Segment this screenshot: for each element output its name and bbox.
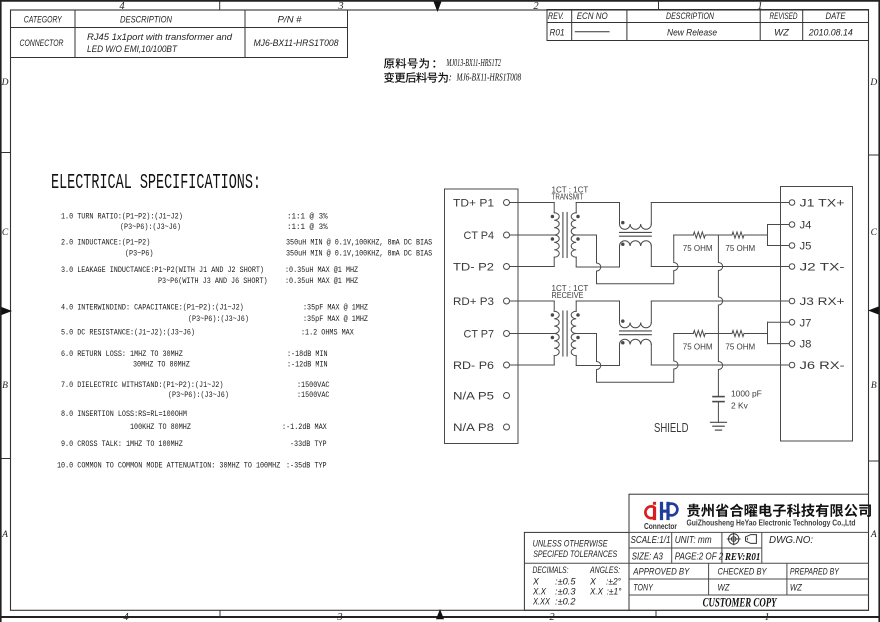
svg-text:SHIELD: SHIELD: [654, 420, 689, 435]
wire T2 secondary bottom to choke: [576, 365, 619, 367]
centering arrow left: [2, 307, 13, 315]
svg-text:B: B: [2, 381, 8, 391]
svg-text:TONY: TONY: [633, 583, 653, 594]
svg-text:X.XX: X.XX: [532, 597, 551, 607]
svg-text::-1.2dB MAX: :-1.2dB MAX: [282, 422, 327, 432]
centering arrow right: [868, 307, 879, 315]
transformer T1 phase dot primary lower: [551, 238, 554, 241]
svg-text:REVISED: REVISED: [770, 11, 798, 22]
svg-text:8.0 INSERTION LOSS:RS=RL=100OH: 8.0 INSERTION LOSS:RS=RL=100OHM: [61, 409, 187, 419]
svg-text:J2 TX-: J2 TX-: [800, 262, 845, 274]
svg-text:(P3~P6):(J3~J6): (P3~P6):(J3~J6): [168, 390, 229, 400]
resistor R2 75 OHM: [725, 232, 755, 253]
svg-text:MJ6-BX11-HRS1T008: MJ6-BX11-HRS1T008: [254, 38, 340, 49]
transformer T1 primary winding: [554, 203, 559, 267]
svg-text:DECIMALS:: DECIMALS:: [533, 565, 569, 575]
svg-text:DESCRIPTION: DESCRIPTION: [666, 11, 714, 22]
svg-text:N/A P5: N/A P5: [453, 391, 494, 403]
revision table: [547, 10, 869, 41]
svg-text:SCALE:1/1: SCALE:1/1: [631, 535, 671, 546]
svg-text:30MHZ TO 80MHZ: 30MHZ TO 80MHZ: [133, 359, 190, 369]
svg-text:RECEIVE: RECEIVE: [552, 291, 584, 300]
svg-text:CHECKED BY: CHECKED BY: [718, 567, 768, 578]
svg-text:C: C: [871, 228, 878, 238]
svg-text:GuiZhousheng HeYao Electronic: GuiZhousheng HeYao Electronic Technology…: [687, 518, 856, 528]
ground (shield): [711, 422, 727, 430]
svg-text:5.0 DC RESISTANCE:(J1~J2):(J3~: 5.0 DC RESISTANCE:(J1~J2):(J3~J6): [61, 327, 195, 337]
wire choke to J6: [651, 364, 789, 366]
svg-text:N/A P8: N/A P8: [453, 422, 494, 434]
wire choke to J3: [651, 300, 789, 302]
svg-text::0.35uH MAX @1 MHZ: :0.35uH MAX @1 MHZ: [285, 265, 358, 275]
label T2 RECEIVE 1CT : 1CT: [552, 284, 589, 300]
terminal P1 TD+: [453, 198, 510, 210]
transformer T2 primary winding: [554, 301, 559, 365]
wire capacitor to ground: [717, 402, 719, 423]
svg-text:2: 2: [549, 612, 555, 622]
terminal P7 CT: [464, 329, 510, 341]
wire bracket to J7/J8: [768, 322, 790, 343]
svg-text::-12dB MIN: :-12dB MIN: [287, 359, 328, 369]
svg-text:TD- P2: TD- P2: [453, 262, 494, 274]
svg-text::1:1 @ 3%: :1:1 @ 3%: [287, 222, 328, 232]
svg-text:J6 RX-: J6 RX-: [800, 360, 845, 372]
transformer T2 secondary winding: [571, 301, 576, 365]
svg-text:1000 pF: 1000 pF: [731, 388, 762, 398]
transformer T1 secondary winding: [571, 203, 576, 267]
specification list: [57, 212, 432, 471]
svg-text:UNIT: mm: UNIT: mm: [675, 535, 712, 546]
svg-text:Connector: Connector: [644, 522, 678, 531]
svg-text:1.0 TURN RATIO:(P1~P2):(J1~J2): 1.0 TURN RATIO:(P1~P2):(J1~J2): [61, 212, 183, 222]
svg-text:10.0 COMMON TO COMMON MODE ATT: 10.0 COMMON TO COMMON MODE ATTENUATION: …: [57, 461, 280, 471]
svg-text:4: 4: [119, 1, 125, 12]
terminal J8: [789, 339, 811, 351]
svg-text::-35dB TYP: :-35dB TYP: [286, 461, 327, 471]
third-angle projection symbol: [727, 533, 757, 545]
svg-text:2: 2: [533, 1, 539, 12]
terminal P8 N/A: [453, 422, 510, 434]
connector J-side box: [781, 187, 853, 442]
svg-text:75 OHM: 75 OHM: [683, 343, 713, 352]
company name (Chinese): [687, 504, 871, 517]
common-mode choke L2 top winding: [620, 301, 652, 328]
svg-text:X: X: [589, 577, 597, 587]
wire T1 secondary bottom to choke: [576, 266, 619, 268]
svg-text:C: C: [2, 228, 9, 238]
svg-text:A: A: [870, 530, 877, 540]
svg-text:P3~P6(WITH J3 AND J6 SHORT): P3~P6(WITH J3 AND J6 SHORT): [158, 276, 268, 286]
svg-text:APPROVED BY: APPROVED BY: [632, 567, 689, 578]
wire choke to J1: [651, 202, 789, 204]
common-mode choke L2 bottom winding: [620, 339, 652, 365]
svg-text:RJ45 1x1port with transformer: RJ45 1x1port with transformer and: [87, 32, 233, 42]
svg-text:TD+ P1: TD+ P1: [453, 198, 494, 210]
svg-text:WZ: WZ: [718, 583, 731, 594]
svg-text::1:1 @ 3%: :1:1 @ 3%: [287, 212, 328, 222]
terminal P3 RD+: [453, 296, 510, 308]
centering arrow top: [434, 2, 442, 13]
terminal P6 RD-: [453, 360, 510, 372]
resistor R4 75 OHM: [725, 331, 755, 352]
svg-text:75 OHM: 75 OHM: [725, 244, 755, 253]
terminal P5 N/A: [453, 391, 510, 403]
resistor R3 75 OHM: [683, 331, 713, 352]
zone ticks left: [1, 153, 11, 459]
svg-text::±1°: :±1°: [607, 587, 622, 597]
svg-text:(P3~P6): (P3~P6): [125, 249, 153, 259]
svg-text:PAGE:2 OF 2: PAGE:2 OF 2: [675, 552, 724, 563]
svg-text:3.0 LEAKAGE INDUCTANCE:P1~P2(W: 3.0 LEAKAGE INDUCTANCE:P1~P2(WITH J1 AND…: [61, 265, 264, 275]
svg-text:350uH MIN @ 0.1V,100KHZ, 8mA D: 350uH MIN @ 0.1V,100KHZ, 8mA DC BIAS: [286, 249, 432, 259]
svg-text:(P3~P6):(J3~J6): (P3~P6):(J3~J6): [120, 222, 181, 232]
svg-text:REV.: REV.: [548, 11, 564, 22]
svg-text:2.0 INDUCTANCE:(P1~P2): 2.0 INDUCTANCE:(P1~P2): [61, 237, 150, 247]
svg-text::: :: [449, 73, 453, 84]
svg-text:R01: R01: [550, 27, 565, 38]
tolerance box: [524, 532, 629, 610]
svg-text:SIZE: A3: SIZE: A3: [632, 552, 663, 563]
zone letters left: [1, 78, 9, 540]
common-mode choke L1 top winding: [620, 203, 652, 230]
wire T2 secondary top to choke: [576, 300, 619, 302]
wire T1 primary center tap: [510, 234, 555, 236]
svg-text:CATEGORY: CATEGORY: [24, 15, 62, 26]
svg-text:J4: J4: [800, 220, 812, 232]
transformer T2 phase dot primary upper: [551, 314, 554, 317]
svg-text:350uH MIN @ 0.1V,100KHZ, 8mA D: 350uH MIN @ 0.1V,100KHZ, 8mA DC BIAS: [286, 237, 432, 247]
svg-text:75 OHM: 75 OHM: [725, 343, 755, 352]
svg-text:3: 3: [337, 1, 343, 12]
svg-text:DWG.NO:: DWG.NO:: [769, 535, 813, 546]
company logo: [644, 502, 678, 531]
terminal J3: [789, 296, 845, 308]
title block texts: [631, 535, 840, 609]
zone letters right: [869, 78, 877, 540]
terminal J4: [789, 220, 811, 232]
svg-text:B: B: [871, 381, 877, 391]
capacitor C1 1000 pF 2 Kv: [713, 388, 762, 410]
svg-text:J1 TX+: J1 TX+: [800, 198, 845, 210]
svg-text::1.2 OHMS MAX: :1.2 OHMS MAX: [301, 327, 354, 337]
svg-text:ECN NO: ECN NO: [577, 11, 609, 22]
svg-text:4.0 INTERWINDIND: CAPACITANCE:: 4.0 INTERWINDIND: CAPACITANCE:(P1~P2):(J…: [61, 303, 244, 313]
svg-text:J7: J7: [800, 317, 812, 329]
svg-text:CUSTOMER COPY: CUSTOMER COPY: [703, 595, 778, 609]
svg-text:100KHZ TO 80MHZ: 100KHZ TO 80MHZ: [130, 422, 191, 432]
svg-text:3: 3: [336, 612, 342, 622]
centering arrow bottom: [436, 609, 444, 619]
choke L2 core: [620, 331, 652, 335]
terminal J2: [789, 262, 845, 274]
wire T1 secondary top to choke: [576, 202, 619, 204]
transformer T1 phase dot secondary lower: [577, 238, 580, 241]
svg-text:-33dB TYP: -33dB TYP: [290, 439, 327, 449]
svg-text:75 OHM: 75 OHM: [683, 244, 713, 253]
svg-text::1500VAC: :1500VAC: [297, 390, 330, 400]
terminal J5: [789, 241, 811, 253]
note: changed part number line: [384, 72, 522, 83]
svg-text:SPECIFED TOLERANCES: SPECIFED TOLERANCES: [533, 549, 617, 559]
svg-text:RD+ P3: RD+ P3: [453, 296, 494, 308]
svg-text:D: D: [1, 78, 9, 88]
note: original part number line: [384, 58, 501, 69]
svg-text:CT P7: CT P7: [464, 329, 495, 341]
zone ticks right: [869, 155, 880, 461]
svg-text:X.X: X.X: [532, 587, 547, 597]
wire T2 primary center tap: [510, 333, 555, 335]
svg-text:2010.08.14: 2010.08.14: [808, 27, 853, 38]
transformer T1 core: [563, 213, 567, 258]
transformer T1 phase dot primary upper: [551, 215, 554, 218]
svg-text:CONNECTOR: CONNECTOR: [20, 38, 64, 49]
svg-text:J5: J5: [800, 241, 812, 253]
svg-text::-18dB MIN: :-18dB MIN: [287, 349, 328, 359]
terminal P2 TD-: [453, 262, 510, 274]
svg-text:6.0 RETURN LOSS: 1MHZ TO 30MHZ: 6.0 RETURN LOSS: 1MHZ TO 30MHZ: [61, 349, 183, 359]
svg-text::±0.2: :±0.2: [555, 597, 576, 607]
svg-text:J3 RX+: J3 RX+: [800, 296, 845, 308]
wire T1 primary top lead: [510, 202, 555, 204]
svg-text::±0.5: :±0.5: [555, 577, 576, 587]
svg-text::1500VAC: :1500VAC: [297, 380, 330, 390]
svg-text:LED W/O EMI,10/100BT: LED W/O EMI,10/100BT: [87, 44, 178, 54]
zone digits bottom: [123, 612, 769, 622]
svg-text:J8: J8: [800, 339, 812, 351]
wire T2 secondary center-tap return (with crossover hops): [576, 334, 678, 383]
svg-text:WZ: WZ: [774, 27, 790, 38]
svg-text:A: A: [1, 530, 8, 540]
svg-text:1: 1: [764, 612, 769, 622]
svg-text:DATE: DATE: [826, 11, 847, 22]
svg-text:TRANSMIT: TRANSMIT: [552, 192, 584, 201]
transformer T2 phase dot secondary lower: [577, 336, 580, 339]
svg-text::35pF MAX @ 1MHZ: :35pF MAX @ 1MHZ: [303, 303, 368, 313]
svg-text:9.0 CROSS TALK: 1MHZ TO 100MHZ: 9.0 CROSS TALK: 1MHZ TO 100MHZ: [61, 439, 183, 449]
svg-text::±0.3: :±0.3: [555, 587, 576, 597]
svg-text:RD- P6: RD- P6: [453, 360, 494, 372]
choke L1 core: [620, 232, 652, 236]
terminal J6: [789, 360, 845, 372]
svg-text:ELECTRICAL SPECIFICATIONS:: ELECTRICAL SPECIFICATIONS:: [51, 172, 261, 195]
wire T1 secondary center-tap return (with crossover hops): [576, 235, 678, 284]
svg-text:(P3~P6):(J3~J6): (P3~P6):(J3~J6): [188, 314, 249, 324]
part number table: [11, 10, 348, 58]
transformer T2 phase dot secondary upper: [577, 314, 580, 317]
svg-text:REV:R01: REV:R01: [724, 551, 760, 563]
wire T2 primary top lead: [510, 300, 555, 302]
wire T2 primary bottom lead: [510, 364, 555, 366]
zone ticks bottom: [220, 610, 656, 617]
zone ticks top: [220, 1, 659, 10]
terminal J1: [789, 198, 845, 210]
svg-text:MJ6-BX11-HRS1T008: MJ6-BX11-HRS1T008: [456, 73, 522, 84]
svg-text:UNLESS OTHERWISE: UNLESS OTHERWISE: [533, 539, 609, 549]
transformer T1 phase dot secondary upper: [577, 215, 580, 218]
svg-text:D: D: [869, 78, 877, 88]
choke L1 phase dot bottom: [622, 243, 625, 246]
resistor R1 75 OHM: [683, 232, 713, 253]
choke L2 phase dot bottom: [622, 342, 625, 345]
svg-text::35pF MAX @ 1MHZ: :35pF MAX @ 1MHZ: [303, 314, 368, 324]
svg-text:CT P4: CT P4: [464, 230, 495, 242]
svg-text:2 Kv: 2 Kv: [731, 400, 749, 410]
svg-text:New Release: New Release: [667, 27, 717, 38]
wire center junction to capacitor (with crossover hops): [718, 235, 722, 396]
choke L2 phase dot top: [622, 320, 625, 323]
terminal P4 CT: [464, 230, 510, 242]
svg-text:ANGLES:: ANGLES:: [589, 565, 620, 575]
title block main grid: [524, 494, 868, 610]
svg-text:DESCRIPTION: DESCRIPTION: [120, 15, 172, 26]
common-mode choke L1 bottom winding: [620, 241, 652, 267]
zone digits top: [119, 1, 762, 12]
wire T1 primary bottom lead: [510, 266, 555, 268]
svg-text:WZ: WZ: [790, 583, 803, 594]
svg-text:4: 4: [123, 612, 129, 622]
svg-text:P/N #: P/N #: [278, 15, 303, 26]
connector P-side box: [445, 189, 519, 444]
svg-text:PREPARED BY: PREPARED BY: [790, 567, 839, 578]
wire choke to J2: [651, 266, 789, 268]
wire bracket to J4/J5: [768, 225, 790, 246]
svg-text:X: X: [532, 577, 540, 587]
svg-text::±2°: :±2°: [606, 577, 621, 587]
wire termination row TX: [674, 234, 768, 236]
svg-text:X.X: X.X: [589, 587, 604, 597]
wire termination row RX: [674, 333, 768, 335]
svg-text:7.0 DIELECTRIC WITHSTAND:(P1~P: 7.0 DIELECTRIC WITHSTAND:(P1~P2):(J1~J2): [61, 380, 223, 390]
label T1 TRANSMIT 1CT : 1CT: [552, 185, 589, 201]
svg-text::0.35uH MAX @1 MHZ: :0.35uH MAX @1 MHZ: [285, 276, 358, 286]
choke L1 phase dot top: [622, 221, 625, 224]
terminal J7: [789, 317, 811, 329]
transformer T2 phase dot primary lower: [551, 336, 554, 339]
transformer T2 core: [563, 311, 567, 356]
svg-text:MJ013-BX11-HRS1T2: MJ013-BX11-HRS1T2: [446, 58, 502, 69]
